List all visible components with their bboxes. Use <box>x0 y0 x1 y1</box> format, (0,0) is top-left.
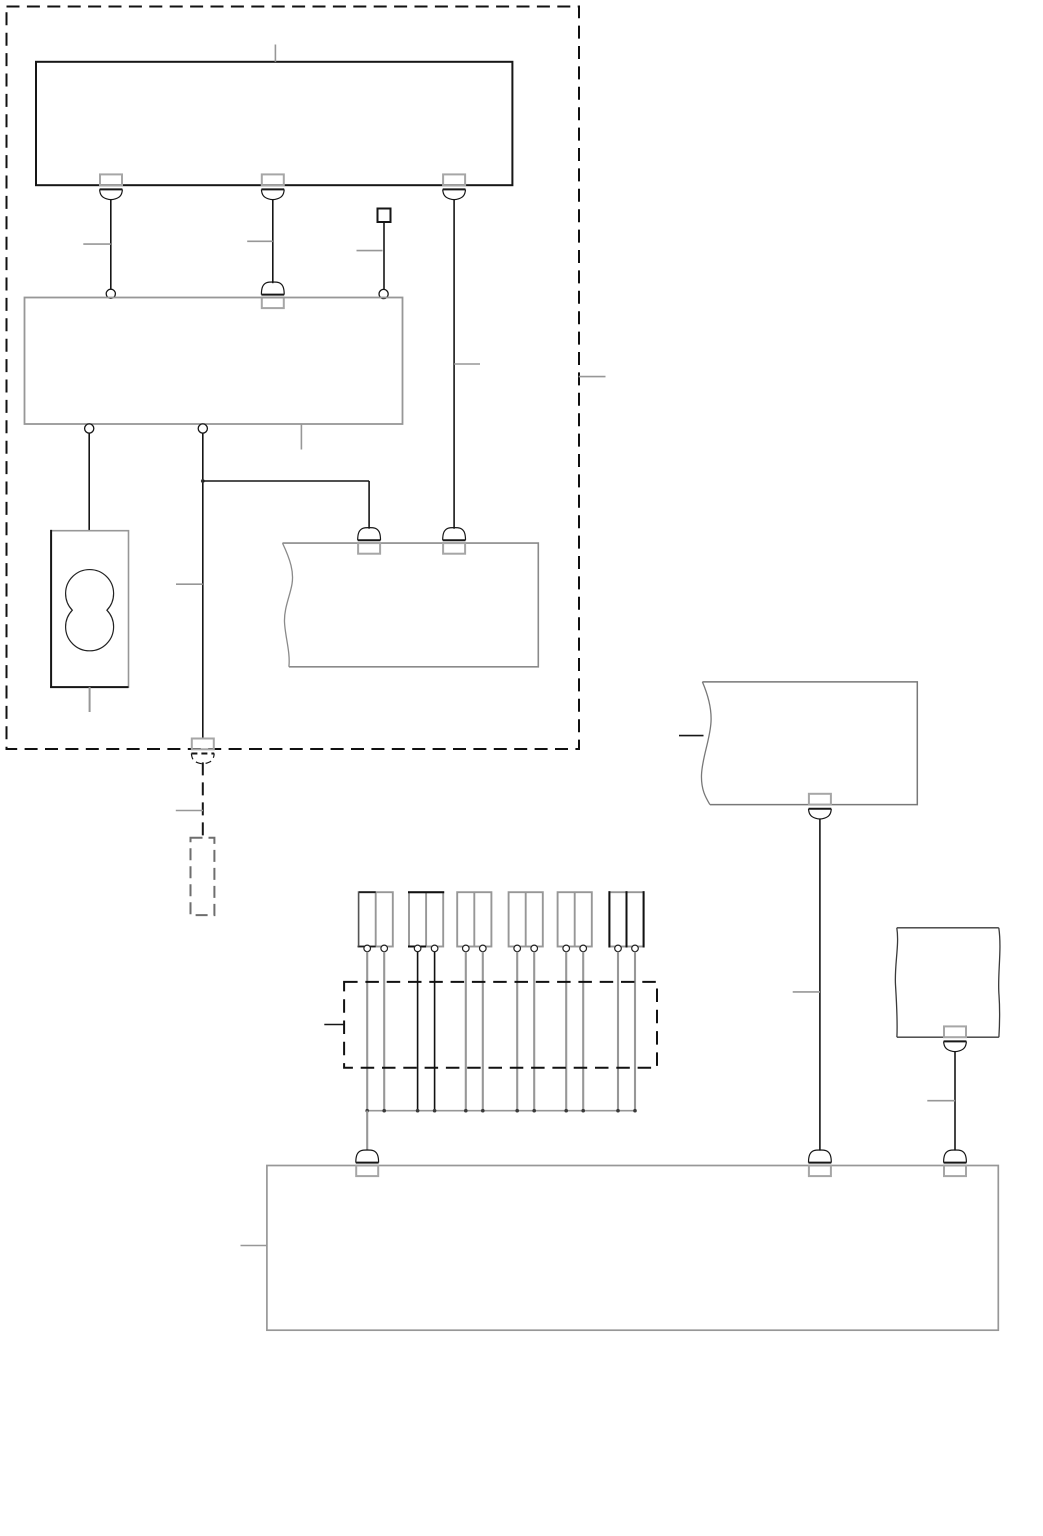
coil harness wire 3 <box>417 952 419 1111</box>
long wire from C103 down to box U3 <box>453 199 455 528</box>
bus junction node 1 <box>365 1109 369 1113</box>
tick label stub below motor M1 <box>89 687 91 712</box>
wire from T1 down to relay box <box>383 222 385 290</box>
box U3 (torn-edge module) <box>283 543 539 667</box>
connector C603 at ECM top (right) <box>944 1150 967 1176</box>
motor M1 body <box>50 530 128 688</box>
coil harness wire 6 <box>482 952 484 1111</box>
ignition coil 1 <box>358 892 393 952</box>
wire color tick (hidden wire) <box>176 810 203 812</box>
tick label stub left of box U4 <box>679 735 704 737</box>
connector C102 under box U1 (middle) <box>261 174 284 199</box>
terminal ring at relay box top (left) <box>106 289 115 298</box>
connector C601 at ECM top (left) <box>356 1150 379 1176</box>
terminal ring at relay box bottom (left) <box>85 424 94 433</box>
wire color tick (C101 wire) <box>83 243 111 245</box>
bus drop wire to ECM connector <box>366 1111 368 1151</box>
box U4 (torn-edge module, right) <box>701 682 917 805</box>
coil harness wire 1 <box>366 952 368 1111</box>
ignition coil 4 <box>509 892 543 952</box>
box U2 relay box <box>25 298 403 425</box>
bus junction node 5 <box>464 1109 468 1113</box>
tick label stub below box U2 <box>300 424 302 450</box>
ignition coil 6 <box>609 891 643 952</box>
motor M1 winding (figure-8) <box>66 570 114 651</box>
bus junction node 9 <box>564 1109 568 1113</box>
connector C201 at relay box top (middle) <box>261 282 284 308</box>
coil harness wire 10 <box>582 952 584 1111</box>
coil harness wire 9 <box>565 952 567 1111</box>
tick label stub left of harness sleeve <box>324 1024 344 1026</box>
tick through enclosure border (right) <box>579 376 606 378</box>
bus junction node 8 <box>532 1109 536 1113</box>
dashed component outline (option) <box>191 838 215 915</box>
wire from relay box down to connector C301 <box>202 433 204 738</box>
terminal ring at relay box bottom (right) <box>198 424 207 433</box>
wire color tick (C401 wire) <box>793 991 820 993</box>
connector C303 at box U3 top (right) <box>443 528 466 554</box>
wire color tick (C501 wire) <box>927 1100 955 1102</box>
connector C301 on enclosure border <box>191 739 214 764</box>
dashed enclosure (dashboard harness boundary) <box>7 7 580 750</box>
box U1 under-dash fuse/relay box <box>36 62 512 185</box>
ground bus wire <box>367 1110 635 1112</box>
coil harness wire 2 <box>383 952 385 1111</box>
coil harness wire 8 <box>533 952 535 1111</box>
wire color tick (C301 wire) <box>176 583 203 585</box>
wire color tick (T1 wire) <box>357 250 383 252</box>
bus junction node 11 <box>616 1109 620 1113</box>
ignition coil 3 <box>457 892 491 952</box>
hidden (dashed) wire below C301 <box>202 762 204 837</box>
connector C103 under box U1 (right) <box>443 174 466 199</box>
junction node J1 <box>201 479 205 483</box>
connector C602 at ECM top (middle) <box>809 1150 832 1176</box>
coil harness wire 12 <box>634 952 636 1111</box>
ignition coil 5 <box>558 892 592 952</box>
box U5 (torn-edge sensor, far right) <box>895 928 1000 1037</box>
wire from C102 down to connector C201 <box>272 199 274 283</box>
connector C501 under box U5 <box>944 1026 967 1051</box>
bus junction node 4 <box>433 1109 437 1113</box>
wire from relay box to motor M1 <box>88 433 90 531</box>
connector C302 at box U3 top (left) <box>358 528 381 554</box>
wire from C501 down to ECM <box>954 1051 956 1150</box>
ignition coil 2 <box>408 892 444 952</box>
coil harness wire 5 <box>465 952 467 1111</box>
bus junction node 3 <box>416 1109 420 1113</box>
wire from C101 down to relay box <box>110 199 112 289</box>
terminal ring at relay box top (right) <box>379 289 388 298</box>
square terminal T1 <box>378 209 391 223</box>
wire color tick (C103 wire) <box>454 363 480 365</box>
tick label stub left of ECM <box>241 1245 267 1247</box>
coil harness wire 7 <box>516 952 518 1111</box>
bus junction node 6 <box>481 1109 485 1113</box>
wire from C401 down to ECM <box>819 819 821 1151</box>
tick label stub above box U1 <box>274 45 276 62</box>
connector C401 under box U4 <box>809 794 832 819</box>
bus junction node 2 <box>382 1109 386 1113</box>
dashed harness sleeve outline <box>344 982 657 1068</box>
wire color tick (C102 wire) <box>247 240 273 242</box>
branch wire from J1 to box U3 connector <box>203 481 369 529</box>
connector C101 under box U1 (left) <box>100 174 123 199</box>
coil harness wire 11 <box>617 952 619 1111</box>
bus junction node 7 <box>515 1109 519 1113</box>
bus junction node 10 <box>581 1109 585 1113</box>
coil harness wire 4 <box>434 952 436 1111</box>
bus junction node 12 <box>633 1109 637 1113</box>
box U6 ECM/PCM <box>267 1166 998 1331</box>
